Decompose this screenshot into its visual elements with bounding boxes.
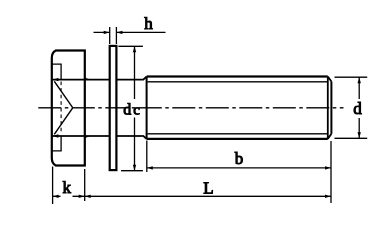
svg-text:b: b <box>235 149 244 168</box>
fillet under head bottom <box>85 136 89 138</box>
recess slot lower edge line <box>52 135 109 137</box>
svg-text:h: h <box>144 14 153 33</box>
rod end extension line for b and L <box>330 141 332 203</box>
shank upper line washer to thread <box>117 77 146 80</box>
svg-text:L: L <box>203 178 213 197</box>
recess slot lower corner <box>52 136 61 151</box>
recess arrow upper <box>52 78 58 81</box>
chamfer diagonal bottom <box>328 134 332 139</box>
recess hidden vertical dashed <box>60 82 62 135</box>
thread major diameter bottom <box>147 138 328 140</box>
chamfer diagonal top <box>328 77 332 82</box>
dimension dc line upper segment with arrow <box>134 46 136 99</box>
washer <box>110 46 117 170</box>
dimension dc extension lines <box>118 46 142 170</box>
thread minor diameter bottom <box>148 133 329 135</box>
screw head outline <box>52 51 85 166</box>
recess arrow lower <box>52 134 58 137</box>
thread start vertical <box>146 77 148 139</box>
dimension b line with arrows <box>147 167 331 169</box>
dimension k line with arrows <box>53 195 85 197</box>
dimension L line with arrows <box>85 195 331 197</box>
dimension k extension lines <box>53 167 85 205</box>
thread minor diameter top <box>148 81 329 83</box>
chamfer start vertical <box>327 77 329 139</box>
svg-text:c: c <box>133 102 140 118</box>
dimension h line right with arrow <box>116 31 165 33</box>
dimension d line upper segment with arrow <box>358 77 360 99</box>
dimension dc line lower segment with arrow <box>134 118 136 171</box>
rod end face <box>330 82 332 134</box>
recess slot upper corner <box>52 64 61 79</box>
svg-text:d: d <box>123 101 131 118</box>
centerline axis <box>38 107 343 109</box>
recess slot upper edge line <box>52 79 109 81</box>
dimension h extension lines <box>110 27 117 44</box>
thread major diameter top <box>147 75 328 77</box>
dimension d line lower segment with arrow <box>358 118 360 138</box>
shank lower line washer to thread <box>117 136 146 139</box>
svg-text:d: d <box>353 99 362 118</box>
dimension d extension lines <box>335 77 368 138</box>
dimension b extension line <box>146 141 148 173</box>
svg-text:k: k <box>63 178 72 197</box>
recess cone upper diagonal <box>54 81 72 107</box>
dimension h line left with arrow <box>94 31 110 33</box>
fillet under head top <box>85 78 89 80</box>
recess cone lower diagonal <box>54 108 72 134</box>
